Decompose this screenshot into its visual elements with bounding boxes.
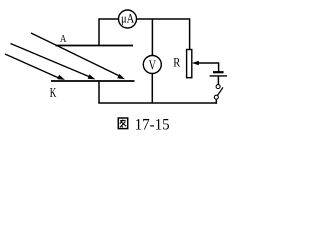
anode plate [56, 45, 134, 47]
switch blade [217, 87, 223, 95]
light ray 2 [11, 44, 96, 80]
bottom wire [98, 102, 217, 104]
caption glyph 图 [118, 118, 127, 129]
svg-text:μA: μA [121, 11, 135, 26]
wire switch bottom vertical [215, 99, 217, 104]
svg-text:17-15: 17-15 [135, 114, 170, 133]
switch bottom contact [214, 95, 218, 99]
wire top left horizontal [99, 18, 119, 20]
wire anode vertical [98, 18, 100, 45]
wire voltmeter bottom vertical [151, 74, 153, 104]
svg-text:R: R [173, 54, 180, 69]
wire cathode vertical [98, 81, 100, 103]
wire top right horizontal [137, 18, 190, 20]
wire rheostat top vertical [189, 18, 191, 49]
microammeter uA [119, 10, 137, 28]
svg-text:K: K [50, 86, 57, 101]
rheostat R body [187, 50, 192, 78]
rheostat wiper arrow [192, 61, 219, 65]
wire battery to switch [217, 76, 219, 85]
battery short plate [213, 71, 224, 73]
svg-text:A: A [60, 34, 67, 45]
light ray 3 [5, 54, 65, 80]
svg-text:V: V [149, 58, 156, 73]
battery long plate [210, 75, 227, 77]
light ray 1 [31, 33, 125, 79]
voltmeter V [143, 56, 161, 74]
cathode plate K [51, 80, 135, 82]
wire battery top vertical [218, 62, 220, 72]
switch top contact [216, 85, 220, 89]
wire voltmeter top vertical [151, 19, 153, 56]
